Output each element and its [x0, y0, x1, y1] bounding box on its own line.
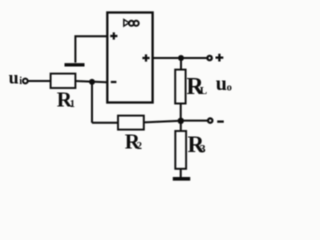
- wire node A down: [91, 82, 93, 123]
- wire RL to node B: [180, 104, 182, 121]
- output terminal circle +: [207, 56, 211, 60]
- op-amp non-inverting input marker +: [110, 32, 117, 39]
- wire u_i to R1: [28, 80, 51, 82]
- output - sign: [217, 120, 224, 122]
- ground G2 bar: [173, 177, 190, 181]
- resistor RL: [175, 70, 185, 104]
- wire R1 to op-amp inverting input: [75, 81, 107, 82]
- wire R3 to ground: [180, 169, 182, 177]
- output + sign: [216, 54, 224, 62]
- svg-text:o: o: [227, 83, 232, 94]
- svg-text:2: 2: [137, 141, 142, 152]
- wire node A to R2: [92, 122, 118, 124]
- resistor R3: [175, 131, 186, 169]
- wire R2 to node B: [144, 121, 181, 123]
- svg-text:3: 3: [200, 142, 206, 156]
- resistor R2: [118, 116, 144, 130]
- wire node C down to RL: [180, 58, 182, 70]
- svg-text:1: 1: [70, 99, 75, 110]
- output terminal circle -: [208, 118, 212, 122]
- wire R3 top: [180, 121, 182, 131]
- output wire op-amp to + terminal: [153, 57, 208, 59]
- node A junction dot: [89, 79, 95, 85]
- op-amp U1 box: [107, 13, 152, 103]
- op-amp output marker +: [142, 54, 149, 61]
- op-amp gain symbol infinity: [129, 21, 134, 26]
- node C junction dot: [178, 55, 184, 61]
- op-amp inverting input marker -: [111, 81, 117, 83]
- lower rail wire node B to - terminal: [181, 120, 208, 122]
- svg-text:u: u: [9, 68, 19, 88]
- op-amp gain symbol triangle: [124, 20, 129, 27]
- input terminal circle u_i: [23, 79, 28, 84]
- node B junction dot: [178, 118, 184, 124]
- wire op-amp + input to ground: [75, 36, 107, 62]
- svg-text:u: u: [216, 73, 227, 95]
- resistor R1: [51, 74, 76, 88]
- svg-text:L: L: [200, 85, 207, 97]
- ground G1 bar: [65, 63, 85, 66]
- svg-text:i: i: [19, 76, 22, 87]
